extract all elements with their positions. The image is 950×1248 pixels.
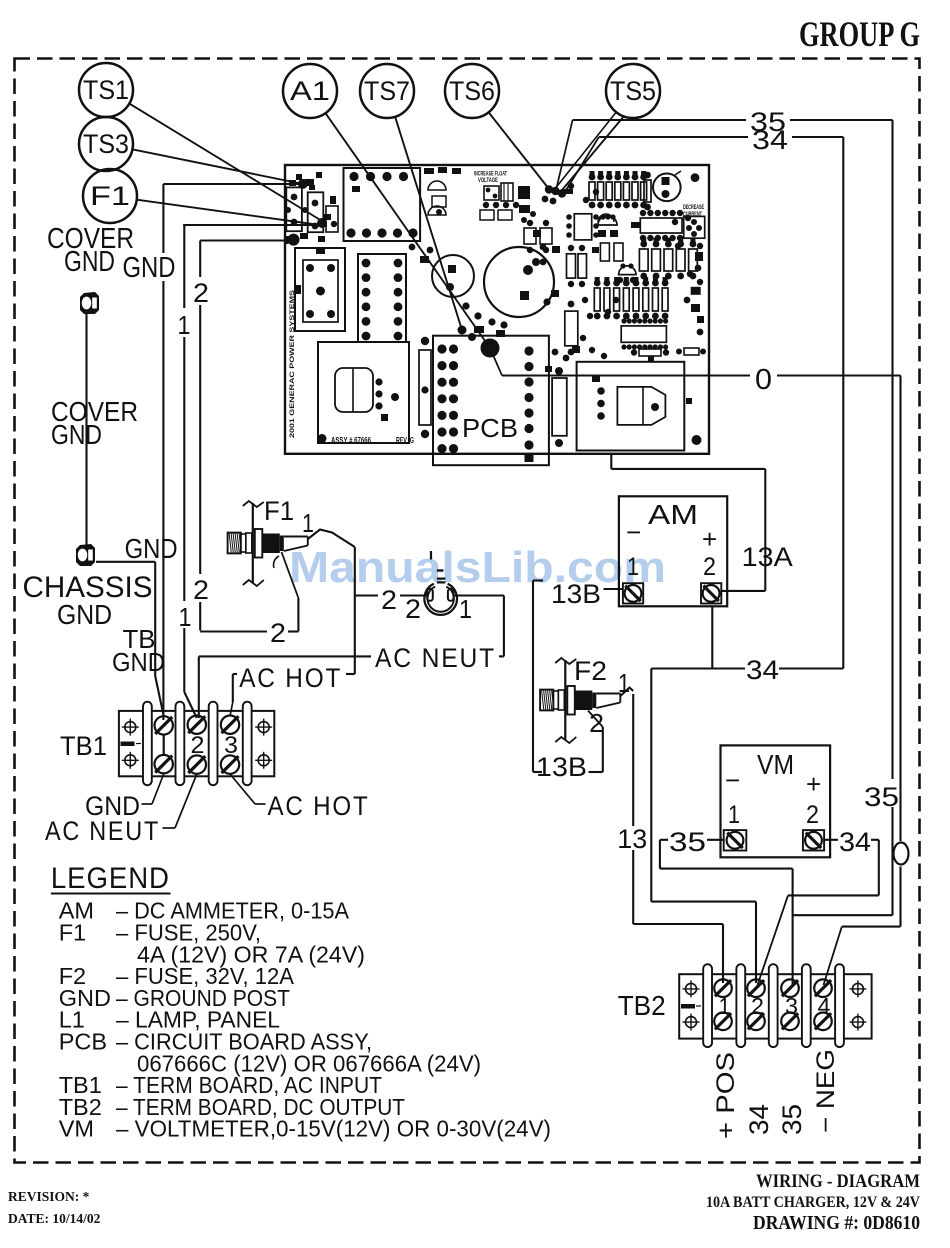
svg-text:1: 1 (302, 508, 314, 538)
revision and date (8, 1189, 101, 1226)
PCB TS7 pad (458, 326, 467, 335)
svg-text:AC NEUT: AC NEUT (375, 643, 496, 673)
balloon leader TS7 (395, 116, 462, 330)
svg-text:2: 2 (806, 801, 819, 829)
PCB input connector cluster (285, 180, 338, 242)
legend (51, 862, 551, 1142)
PCB capacitor C2 (large) (484, 247, 554, 317)
svg-text:VM: VM (59, 1116, 94, 1142)
PCB transistors Q2 Q3 (598, 214, 618, 237)
PCB resistor bank row 3 (594, 277, 669, 319)
balloon leader F1 (136, 200, 327, 226)
label + POS (rotated) (712, 1052, 740, 1139)
PCB DECREASE CURRENT label and trimmer (683, 205, 705, 238)
label GND (at chassis post) (125, 533, 178, 564)
label 13A (742, 542, 793, 572)
PCB right power block Q4 (577, 362, 692, 451)
balloon TS1 (79, 63, 133, 117)
svg-text:WIRING - DIAGRAM: WIRING - DIAGRAM (756, 1171, 920, 1192)
TB1 part number mark (121, 742, 142, 747)
label 35 (top) (750, 107, 786, 137)
svg-text:INCREASE FLOAT: INCREASE FLOAT (474, 172, 507, 178)
svg-text:F1: F1 (59, 920, 86, 946)
fuse F2 holder (540, 658, 620, 743)
label 0 (right) (894, 843, 909, 865)
svg-text:TB2: TB2 (618, 990, 666, 1021)
wire 34 top run (564, 137, 843, 983)
svg-text:3: 3 (224, 732, 238, 759)
PCB IC U3 (vertical) (566, 214, 599, 240)
svg-text:PCB: PCB (59, 1029, 107, 1055)
lamp L1 (424, 551, 457, 615)
wire 35 top run (556, 120, 893, 915)
balloon leader TS1 (129, 103, 323, 221)
svg-text:−: − (725, 765, 740, 795)
wire lamp terminal 1 to AC NEUT (454, 596, 504, 657)
svg-text:GROUP G: GROUP G (799, 14, 920, 54)
PCB left tall part (565, 301, 578, 356)
balloon leader TS3 (132, 149, 303, 184)
TB2 circuit numbers (719, 993, 831, 1019)
label TB1 (60, 731, 107, 761)
balloon TS5 (606, 64, 660, 118)
terminal board TB2 (679, 964, 871, 1047)
wire chassis post to TB1 (96, 562, 164, 716)
svg-text:13B: 13B (551, 579, 601, 609)
PCB power block Q1 heatsink (318, 342, 409, 443)
label GND (wire from PCB) (123, 252, 176, 284)
svg-text:10A BATT CHARGER, 12V & 24V: 10A BATT CHARGER, 12V & 24V (706, 1194, 921, 1211)
PCB daughter board with PCB label (433, 333, 549, 465)
svg-text:VOLTAGE: VOLTAGE (478, 178, 498, 184)
svg-text:2: 2 (405, 594, 421, 624)
svg-text:AC HOT: AC HOT (268, 791, 370, 821)
svg-text:2: 2 (381, 585, 397, 615)
label - NEG (rotated) (812, 1049, 840, 1133)
label 1 (lower) (179, 602, 192, 632)
terminal board TB1 (119, 702, 274, 786)
svg-text:3: 3 (785, 993, 798, 1019)
label 13 (617, 824, 647, 854)
balloon leader TS6 (488, 112, 549, 190)
PCB assembly text (289, 290, 414, 445)
svg-text:– VOLTMETER,0-15V(12V) OR 0-30: – VOLTMETER,0-15V(12V) OR 0-30V(24V) (116, 1116, 551, 1142)
balloon leader A1 (325, 112, 490, 348)
balloon TS6 (445, 64, 499, 118)
svg-text:AM: AM (648, 499, 698, 530)
label 2 (lamp terminal) (405, 594, 421, 624)
label 35 (right) (864, 782, 899, 812)
svg-text:A1: A1 (290, 76, 330, 106)
svg-text:2: 2 (270, 618, 286, 648)
wire AM terminal 2 to 34 net (711, 606, 713, 668)
label F1 (264, 496, 294, 526)
PCB top small parts near INCREASE FLOAT label (428, 172, 530, 221)
label 1 (fuse F1 terminal) (302, 508, 314, 538)
svg-text:2: 2 (751, 993, 764, 1019)
svg-text:F1: F1 (90, 181, 130, 211)
svg-text:TS7: TS7 (364, 76, 410, 106)
label 35 (rotated) (777, 1104, 807, 1135)
ground post (chassis) (76, 544, 95, 566)
PCB small vertical part (419, 337, 431, 438)
svg-text:GND: GND (123, 252, 176, 284)
svg-text:2001 GENERAC POWER SYSTEMS: 2001 GENERAC POWER SYSTEMS (289, 290, 296, 438)
wire 35 (VM terminal 1 to TB2 col3) (660, 840, 793, 985)
wire 13B (AM terminal 1 to F2 terminal 2) (533, 581, 623, 773)
svg-text:1: 1 (719, 993, 731, 1019)
svg-text:1: 1 (178, 310, 191, 340)
wire GND (PCB to TB1 col1) (163, 184, 303, 720)
balloon leader TS5 (two lines) (554, 111, 625, 192)
PCB IC U1 with pin pads (358, 254, 406, 342)
svg-text:PCB: PCB (462, 413, 518, 443)
label TB GND (112, 624, 165, 677)
label 35 (at VM) (669, 827, 706, 857)
label 2 (at F1 wire) (270, 618, 286, 648)
TB1 circuit numbers (191, 732, 239, 759)
svg-text:−: − (626, 517, 641, 547)
label COVER GND (upper) (47, 223, 134, 278)
svg-text:2: 2 (193, 278, 209, 308)
label 13B (upper) (551, 579, 601, 609)
svg-text:34: 34 (752, 125, 788, 155)
wire cover-gnd chain (85, 314, 87, 545)
svg-text:35: 35 (777, 1104, 807, 1135)
label TB2 (618, 990, 666, 1021)
svg-text:1: 1 (459, 594, 472, 624)
label AC NEUT (upper) (375, 643, 496, 673)
wire lamp terminal 2 to AC HOT junction (355, 594, 427, 596)
PCB center strip small parts (409, 167, 580, 361)
svg-text:DATE: 10/14/02: DATE: 10/14/02 (8, 1211, 101, 1226)
wire 2 (PCB to fuse F1) (200, 241, 298, 632)
svg-text:34: 34 (744, 1104, 774, 1135)
label 1 (fuse F2 terminal) (618, 668, 630, 698)
label 1 (lamp terminal) (459, 594, 472, 624)
svg-text:DECREASE: DECREASE (683, 205, 704, 211)
label 34 (at VM) (839, 827, 871, 857)
svg-text:13B: 13B (536, 752, 587, 782)
svg-text:F1: F1 (264, 496, 294, 526)
balloon TS3 (79, 117, 133, 171)
label AC NEUT (TB1 bottom) (45, 774, 197, 846)
svg-text:GND: GND (64, 246, 115, 278)
PCB transformer T1 (344, 168, 421, 241)
svg-text:TS6: TS6 (449, 76, 495, 106)
label AC HOT (upper) (239, 663, 342, 693)
TB1 jumper col1 (163, 735, 165, 756)
svg-text:TB1: TB1 (60, 731, 107, 761)
wire 1 (PCB to TB1 col2) (183, 225, 318, 718)
svg-text:ASSY # 67666: ASSY # 67666 (331, 435, 371, 445)
ammeter AM box (619, 496, 727, 606)
svg-text:0: 0 (755, 364, 772, 396)
svg-text:1: 1 (627, 553, 639, 581)
wire F1 terminal 1 to AC HOT (230, 530, 355, 717)
label 2 (fuse F2 terminal) (589, 708, 604, 738)
svg-text:2: 2 (191, 732, 205, 759)
PCB IC U2 (horizontal DIP) (631, 210, 683, 241)
svg-text:ManualsLib.com: ManualsLib.com (289, 543, 666, 592)
PCB corner mounting pads (318, 178, 702, 446)
svg-text:2: 2 (193, 575, 209, 605)
svg-text:GND: GND (125, 533, 178, 564)
PCB scattered pads right-middle (568, 183, 703, 359)
label AC HOT (TB1 bottom) (230, 774, 370, 821)
svg-text:35: 35 (864, 782, 899, 812)
wire AC NEUT to TB1 col2 (199, 656, 371, 718)
svg-text:TS1: TS1 (83, 75, 129, 105)
voltmeter VM box (721, 745, 831, 857)
svg-text:DRAWING #: 0D8610: DRAWING #: 0D8610 (753, 1213, 920, 1234)
svg-text:REV_G: REV_G (396, 435, 414, 445)
wire 13A (PCB to AM terminal 2) (611, 454, 765, 591)
svg-text:1: 1 (179, 602, 192, 632)
wire 34 (VM terminal 2 to TB2 col2) (758, 840, 879, 985)
svg-text:− NEG: − NEG (812, 1049, 840, 1133)
label 2 (upper) (193, 278, 209, 308)
label GND (TB1 bottom) (85, 774, 164, 821)
PCB outline (285, 165, 709, 454)
fuse F1 holder (228, 501, 308, 586)
PCB capacitor C1 (432, 255, 474, 297)
label 34 (rotated) (744, 1104, 774, 1135)
PCB TS5/TS6 pads (nodes 34/35) (542, 185, 573, 204)
PCB resistor bank row 1 (589, 171, 651, 210)
svg-text:AC HOT: AC HOT (239, 663, 342, 693)
svg-text:34: 34 (746, 655, 779, 685)
svg-text:TS3: TS3 (83, 129, 129, 159)
svg-text:GND: GND (51, 419, 102, 450)
label 1 (upper) (178, 310, 191, 340)
PCB IC U4 (long DIP) (621, 318, 668, 349)
label 13B (lower) (536, 752, 587, 782)
TB1 screws (155, 716, 240, 774)
svg-text:LEGEND: LEGEND (51, 862, 170, 895)
PCB small parts mid (567, 243, 637, 287)
svg-text:+: + (702, 524, 717, 554)
PCB input pads (node GND / node 1 / node 2) (285, 172, 332, 246)
label COVER GND (lower) (51, 396, 138, 450)
svg-text:GND: GND (112, 647, 165, 677)
wire 13 (F2 terminal 1 to TB2 col1) (620, 688, 723, 984)
svg-text:2: 2 (589, 708, 604, 738)
TB2 screws (714, 979, 832, 1030)
svg-text:13A: 13A (742, 542, 793, 572)
PCB resistor bank row 2 (639, 238, 697, 279)
svg-text:35: 35 (669, 827, 706, 857)
svg-text:AC NEUT: AC NEUT (45, 816, 160, 846)
svg-text:F2: F2 (574, 656, 607, 686)
PCB big pad (node 0 / A1) (481, 339, 500, 358)
svg-text:4: 4 (818, 993, 831, 1019)
balloon F1 (83, 169, 137, 223)
label 2 (lamp wire) (381, 585, 397, 615)
balloon TS7 (360, 64, 414, 118)
PCB resistors R horizontal bottom (631, 348, 706, 361)
svg-text:TS5: TS5 (610, 76, 656, 106)
label CHASSIS GND (23, 571, 153, 630)
label 34 (top) (752, 125, 788, 155)
svg-text:REVISION: *: REVISION: * (8, 1189, 90, 1204)
PCB right edge small parts (684, 252, 704, 335)
svg-text:+ POS: + POS (712, 1052, 740, 1139)
PCB label text (462, 413, 518, 443)
svg-text:+: + (806, 769, 821, 799)
PCB relay K1 (295, 248, 345, 331)
svg-text:GND: GND (57, 599, 112, 630)
svg-text:34: 34 (839, 827, 871, 857)
svg-text:1: 1 (728, 801, 740, 829)
TB1 mounting holes (122, 719, 272, 769)
drawing title (706, 1171, 921, 1234)
label F2 (574, 656, 607, 686)
svg-text:13: 13 (617, 824, 647, 854)
ground post (cover) (80, 292, 99, 314)
PCB mid column part with pads (532, 230, 567, 447)
label 0 (top) (755, 364, 772, 396)
svg-text:2: 2 (703, 553, 716, 581)
TB2 part number mark (681, 1004, 701, 1009)
PCB trimmer R-adj 1 (653, 171, 699, 201)
balloon A1 (283, 64, 337, 118)
TB2 mounting holes (683, 980, 867, 1030)
wire 0 run (490, 348, 901, 985)
svg-text:VM: VM (757, 749, 794, 780)
label 2 (mid) (193, 575, 209, 605)
label 34 (middle) (746, 655, 779, 685)
